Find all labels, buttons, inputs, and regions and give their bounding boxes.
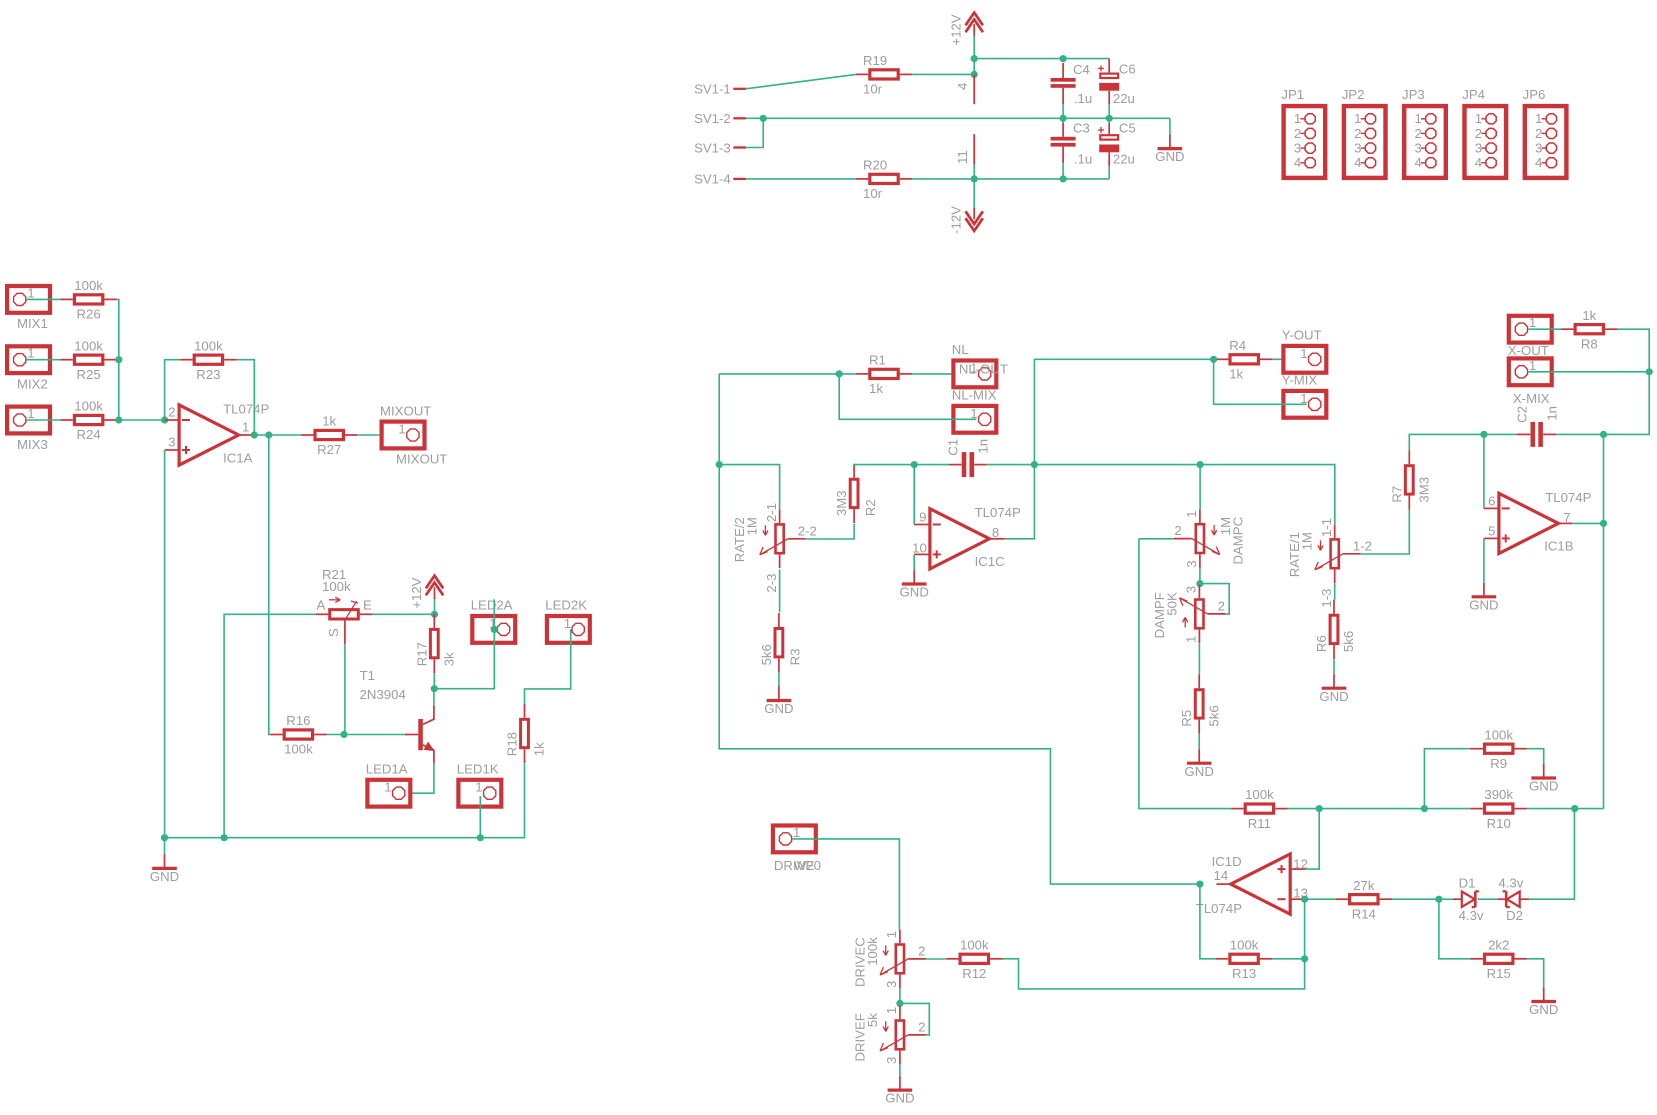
svg-text:LED1A: LED1A [366, 762, 408, 777]
svg-text:1: 1 [1184, 636, 1199, 643]
wire R11 row [1288, 808, 1471, 810]
wire top cap row [974, 58, 1109, 60]
svg-text:R9: R9 [1490, 756, 1507, 771]
svg-text:JP1: JP1 [1281, 87, 1304, 102]
svg-text:GND: GND [150, 869, 179, 884]
svg-text:1M: 1M [745, 517, 760, 535]
svg-text:3: 3 [1294, 141, 1301, 156]
wire R20 to -12V node [912, 178, 974, 180]
junction base/R21 wiper [340, 731, 347, 738]
svg-text:1-3: 1-3 [1319, 589, 1334, 608]
svg-text:2: 2 [1414, 126, 1421, 141]
svg-text:4: 4 [1414, 155, 1421, 170]
resistor R13 100k [1216, 937, 1272, 981]
connector MIX2 [7, 346, 50, 392]
resistor R1 1k [856, 353, 912, 397]
svg-text:JP6: JP6 [1523, 87, 1546, 102]
svg-text:GND: GND [900, 585, 929, 600]
wire output row [254, 434, 301, 436]
wire DRIVEF rheostat loop [900, 1003, 929, 1035]
ground GND (LED section) [150, 838, 179, 884]
wire C4 bottom [1062, 104, 1064, 118]
connector X-MIX [1508, 343, 1552, 406]
trimpot RATE/2 1M [732, 503, 817, 593]
svg-text:LED1K: LED1K [457, 762, 499, 777]
junction collector/LED2A [431, 685, 438, 692]
resistor R20 10r [856, 158, 912, 202]
wire R21-E to +12V node [372, 613, 434, 615]
svg-text:3M3: 3M3 [1417, 477, 1432, 503]
svg-text:C4: C4 [1073, 62, 1090, 77]
connector LED1A [366, 762, 411, 807]
svg-text:4: 4 [1294, 155, 1301, 170]
wire DAMPC wiper to R11 row [1139, 539, 1231, 809]
junction pin12 branch [1316, 805, 1323, 812]
junction DRIVEC/DRIVEF [896, 1000, 903, 1007]
ground GND (power) [1155, 135, 1184, 165]
resistor R11 100k [1231, 787, 1287, 831]
pin header JP4 [1462, 87, 1506, 178]
wire left bus [719, 374, 1200, 884]
svg-text:3: 3 [1184, 586, 1199, 593]
wire R2 top to C1 row [854, 463, 914, 466]
wire feedback to R12 [1003, 899, 1305, 989]
svg-text:2-2: 2-2 [798, 523, 817, 538]
junction C4/C3 [1060, 115, 1067, 122]
svg-text:2-1: 2-1 [764, 503, 779, 522]
svg-text:IC1C: IC1C [975, 554, 1006, 569]
wire to T1 base [344, 734, 405, 736]
svg-text:1: 1 [27, 406, 34, 421]
svg-text:SV1-4: SV1-4 [694, 172, 731, 187]
svg-text:1-1: 1-1 [1319, 518, 1334, 537]
svg-text:4: 4 [955, 83, 970, 90]
capacitor C3 .1u [1051, 120, 1093, 166]
capacitor C4 .1u [1051, 62, 1093, 106]
wire R8 down to C2 row [1604, 329, 1650, 434]
svg-text:NL-OUT: NL-OUT [959, 361, 1008, 376]
pin header JP6 [1523, 87, 1567, 178]
svg-text:-12V: -12V [949, 206, 964, 234]
junction R1/NL-MIX [836, 370, 843, 377]
svg-text:1k: 1k [1229, 367, 1243, 382]
wire to RATE/2 top [719, 465, 779, 511]
svg-text:100k: 100k [1230, 937, 1259, 952]
wire D2 to R10 junction [1529, 809, 1574, 900]
wire output to R16 [269, 435, 270, 735]
resistor R14 27k [1336, 878, 1392, 922]
svg-text:3: 3 [884, 1057, 899, 1064]
svg-text:1-2: 1-2 [1353, 538, 1372, 553]
svg-text:100k: 100k [74, 338, 103, 353]
svg-text:R7: R7 [1389, 486, 1404, 503]
svg-text:GND: GND [1469, 597, 1498, 612]
resistor R25 100k [60, 338, 116, 382]
wire RATE/1 wiper to R7 [1361, 510, 1410, 554]
junction +12V/R17 [431, 611, 438, 618]
svg-text:R4: R4 [1229, 338, 1246, 353]
svg-text:5k6: 5k6 [759, 644, 774, 665]
svg-text:5k6: 5k6 [1341, 631, 1356, 652]
wire R13 to node [1272, 958, 1304, 960]
junction DAMPC/DAMPF [1196, 580, 1203, 587]
junction X-MIX/R8 [1646, 368, 1653, 375]
resistor R15 2k2 [1471, 937, 1527, 981]
junction C2/trunk [1600, 431, 1607, 438]
svg-text:100k: 100k [865, 937, 880, 966]
svg-text:4: 4 [1535, 155, 1542, 170]
svg-text:10r: 10r [863, 82, 883, 97]
svg-text:22u: 22u [1113, 151, 1135, 166]
capacitor C5 22u (electrolytic) [1098, 120, 1136, 166]
wire to R15 [1439, 899, 1471, 959]
svg-text:Y-OUT: Y-OUT [1282, 328, 1322, 343]
svg-text:4.3v: 4.3v [1498, 876, 1523, 891]
pin header JP2 [1342, 87, 1386, 178]
svg-text:SV1-1: SV1-1 [694, 82, 731, 97]
resistor R7 3M3 [1389, 450, 1431, 509]
op-amp IC1B (TL074P) [1484, 490, 1592, 554]
svg-text:2: 2 [1218, 598, 1225, 613]
junction bus/R24 [115, 416, 122, 423]
svg-text:MIXOUT: MIXOUT [380, 403, 431, 418]
wire ground bus [165, 763, 525, 838]
svg-text:1: 1 [27, 346, 34, 361]
trimpot DAMPF 50K [1152, 585, 1226, 643]
trimpot DRIVEF 5k [852, 1006, 926, 1064]
junction C4 top [1060, 55, 1067, 62]
svg-text:8: 8 [992, 525, 999, 540]
wire bus to R1 [719, 373, 856, 375]
connector pin SV1-2 [694, 111, 746, 126]
wire DAMPC wiper [1139, 538, 1174, 540]
wire to GND [1169, 118, 1171, 134]
svg-text:2: 2 [1354, 126, 1361, 141]
wire X-MIX to trunk [1528, 371, 1649, 373]
svg-text:GND: GND [1529, 779, 1558, 794]
svg-text:1k: 1k [532, 742, 547, 756]
svg-text:4: 4 [1475, 155, 1482, 170]
pin header JP3 [1402, 87, 1446, 178]
wire C6 bottom [1108, 104, 1110, 118]
svg-text:5: 5 [1488, 524, 1495, 539]
power symbol +12V (top) [949, 13, 983, 46]
svg-text:4: 4 [1354, 155, 1361, 170]
svg-text:R5: R5 [1179, 710, 1194, 727]
wire C3 bottom [1062, 163, 1064, 179]
ground GND (R3) [764, 672, 793, 716]
ground GND (IC1C) [900, 570, 929, 600]
svg-text:1: 1 [564, 616, 571, 631]
capacitor C1 1n [946, 439, 991, 477]
svg-text:NL-MIX: NL-MIX [952, 388, 997, 403]
wire R25 out [117, 359, 119, 361]
wire net11 to -12V row [973, 164, 975, 179]
junction +12V/top cap row [971, 55, 978, 62]
svg-text:100k: 100k [74, 278, 103, 293]
svg-text:C3: C3 [1073, 120, 1090, 135]
ground GND (IC1B) [1469, 583, 1498, 613]
wire R17 to collector node [433, 673, 435, 689]
diode D1 4.3v (zener) [1453, 876, 1484, 924]
svg-text:6: 6 [1488, 493, 1495, 508]
wire C1 left [914, 464, 949, 466]
svg-text:1: 1 [27, 285, 34, 300]
junction ground bus R21 [221, 834, 228, 841]
svg-text:390k: 390k [1484, 787, 1513, 802]
svg-text:TL074P: TL074P [1545, 490, 1591, 505]
wire to NL-MIX [839, 374, 976, 419]
svg-text:JP3: JP3 [1402, 87, 1425, 102]
wire DRIVEC to DRIVEF [899, 988, 901, 1003]
svg-text:TL074P: TL074P [223, 401, 269, 416]
wire LED2K to R18 [525, 629, 571, 705]
svg-text:IC1B: IC1B [1544, 539, 1574, 554]
wire to Y-MIX [1214, 359, 1307, 404]
svg-text:NL: NL [952, 342, 969, 357]
wire R14 to diodes [1392, 898, 1439, 900]
wire summing bus [117, 299, 165, 420]
svg-text:JP4: JP4 [1462, 87, 1485, 102]
svg-text:GND: GND [1529, 1002, 1558, 1017]
wire emitter to LED1A [405, 764, 434, 794]
junction C1/IC1C inverting [911, 461, 918, 468]
svg-text:100k: 100k [960, 937, 989, 952]
svg-text:GND: GND [1185, 764, 1214, 779]
svg-text:1: 1 [475, 780, 482, 795]
net 4 (IC power pin stub) [955, 74, 974, 104]
wire non-inverting to gnd [913, 554, 915, 570]
svg-text:1: 1 [1535, 111, 1542, 126]
connector MIX3 [7, 406, 50, 452]
resistor R3 5k6 [759, 613, 803, 672]
svg-text:5k: 5k [865, 1013, 880, 1027]
svg-text:R6: R6 [1314, 635, 1329, 652]
junction +12V/R19 [971, 71, 978, 78]
svg-text:2N3904: 2N3904 [360, 687, 406, 702]
wire C2 right [1556, 433, 1604, 435]
op-amp IC1D (TL074P, mirrored) [1196, 854, 1308, 916]
svg-text:4.3v: 4.3v [1459, 908, 1484, 923]
svg-text:100k: 100k [322, 579, 351, 594]
svg-text:1n: 1n [1545, 406, 1560, 421]
connector DRIVE [773, 825, 821, 873]
junction DAMPC branch [1197, 461, 1204, 468]
wire DAMPF rheostat loop [1200, 584, 1229, 615]
wire R10 to trunk [1527, 808, 1604, 810]
svg-text:R11: R11 [1248, 816, 1271, 831]
wire DRIVEF to gnd [899, 1064, 901, 1076]
svg-text:100k: 100k [1484, 727, 1513, 742]
wire output to R13 [1200, 884, 1216, 959]
svg-text:R1: R1 [869, 353, 886, 368]
svg-text:1: 1 [1529, 358, 1536, 373]
svg-text:R19: R19 [863, 53, 887, 68]
wire MIX1 to resistor [27, 298, 61, 300]
svg-text:R10: R10 [1487, 816, 1511, 831]
svg-text:1: 1 [793, 825, 800, 840]
resistor R9 100k [1471, 727, 1527, 771]
wire R1 to NL-OUT [912, 373, 976, 375]
svg-text:IC1A: IC1A [223, 450, 253, 465]
svg-text:1: 1 [1529, 315, 1536, 330]
svg-text:22u: 22u [1113, 91, 1135, 106]
svg-text:50K: 50K [1164, 592, 1179, 616]
resistor R19 10r [856, 53, 912, 97]
svg-text:A: A [317, 597, 326, 612]
svg-text:3: 3 [884, 981, 899, 988]
wire R7 top to C2 row [1409, 434, 1484, 450]
svg-text:1k: 1k [322, 414, 336, 429]
resistor R16 100k [270, 713, 326, 757]
wire DAMPF to R5 [1198, 643, 1200, 674]
junction output branch [265, 431, 272, 438]
wire R11 row to pin 12 [1305, 809, 1319, 870]
svg-text:R13: R13 [1232, 966, 1256, 981]
wire +12V to node [434, 599, 436, 614]
svg-text:D2: D2 [1506, 908, 1523, 923]
resistor R4 1k [1216, 338, 1272, 382]
resistor R12 100k [946, 937, 1002, 981]
svg-text:R2: R2 [863, 499, 878, 516]
svg-text:IC1D: IC1D [1212, 854, 1242, 869]
wire D1 to D2 [1478, 898, 1498, 900]
wire R21 wiper down [344, 644, 346, 734]
junction left bus/RATE2 row [716, 461, 723, 468]
wire C1 row to RATE/1 [1034, 465, 1334, 525]
wire SV1-1 to R19 [746, 74, 856, 88]
connector pin SV1-4 [694, 172, 746, 187]
wire trunk down [1603, 434, 1605, 808]
svg-text:MIXOUT: MIXOUT [396, 451, 447, 466]
resistor R2 3M3 [834, 464, 878, 523]
svg-text:2-3: 2-3 [764, 574, 779, 593]
wire +12V vertical [973, 36, 975, 74]
connector Y-MIX [1282, 373, 1327, 418]
svg-text:C2: C2 [1514, 406, 1529, 423]
svg-text:MIX3: MIX3 [17, 437, 48, 452]
svg-text:GND: GND [885, 1091, 914, 1106]
wire GND row (SV1-2) [746, 117, 1170, 119]
svg-text:1: 1 [1300, 346, 1307, 361]
junction R13/feedback [1301, 955, 1308, 962]
svg-text:TL074P: TL074P [975, 505, 1021, 520]
wire R23 right to output [237, 360, 255, 435]
wire to -12V symbol [973, 179, 975, 208]
connector LED2A [471, 598, 516, 643]
wire non-inverting to ground bus [164, 450, 166, 838]
pin header JP1 [1281, 87, 1325, 178]
junction pin13 [1301, 896, 1308, 903]
svg-text:7: 7 [1563, 510, 1570, 525]
svg-text:R23: R23 [196, 367, 220, 382]
junction IC1B output/trunk [1600, 520, 1607, 527]
svg-text:1k: 1k [869, 381, 883, 396]
wire R24 out [117, 419, 119, 421]
svg-text:SV1-3: SV1-3 [694, 140, 731, 155]
svg-text:+12V: +12V [409, 577, 424, 608]
wire R19 to +12V [912, 73, 974, 75]
svg-text:X-OUT: X-OUT [1508, 343, 1549, 358]
ground GND (DRIVEF) [885, 1076, 914, 1106]
svg-text:2: 2 [1475, 126, 1482, 141]
svg-text:3: 3 [1354, 141, 1361, 156]
wire LED2A down [434, 599, 494, 689]
wire MIX3 to resistor [27, 419, 61, 421]
wire R4 to Y-OUT [1272, 358, 1306, 360]
svg-text:C6: C6 [1119, 62, 1136, 77]
wire X-OUT to R8 [1528, 328, 1561, 330]
power symbol +12V (LED section) [409, 576, 443, 609]
connector Y-OUT [1282, 328, 1327, 373]
wire IC1C output trunk [1005, 359, 1214, 539]
svg-text:1M: 1M [1300, 532, 1315, 550]
trimpot R21 100k [316, 567, 373, 644]
junction C6/C5 [1106, 115, 1113, 122]
svg-text:3: 3 [168, 435, 175, 450]
resistor R26 100k [60, 278, 116, 322]
ground GND (R15) [1529, 988, 1558, 1018]
svg-text:2: 2 [168, 404, 175, 419]
wire to D1 [1439, 898, 1453, 900]
wire R9 to gnd [1527, 749, 1544, 764]
junction SV1-2/SV1-3 [760, 115, 767, 122]
wire R16 to base node [327, 734, 344, 736]
svg-text:1: 1 [384, 780, 391, 795]
svg-text:X-MIX: X-MIX [1513, 391, 1550, 406]
svg-text:R26: R26 [76, 307, 100, 322]
ground GND (R5) [1185, 734, 1214, 779]
svg-text:1: 1 [1414, 111, 1421, 126]
connector MIXOUT [380, 403, 447, 466]
svg-text:5k6: 5k6 [1206, 705, 1221, 726]
svg-text:1: 1 [884, 931, 899, 938]
net 11 (IC power pin stub) [955, 134, 974, 164]
wire LED1K down [479, 796, 481, 838]
junction R10/diodes [1571, 805, 1578, 812]
svg-text:2: 2 [918, 1019, 925, 1034]
resistor R5 5k6 [1179, 674, 1221, 733]
wire SV1-4 to R20 [746, 178, 856, 180]
svg-text:1: 1 [1354, 111, 1361, 126]
op-amp IC1C (TL074P) [912, 505, 1021, 569]
wire pin13 to R14 [1305, 898, 1336, 900]
junction C2/IC1B [1480, 431, 1487, 438]
wire DAMPC to DAMPF node [1199, 568, 1201, 584]
svg-text:TL074P: TL074P [1196, 901, 1242, 916]
svg-text:2: 2 [1535, 126, 1542, 141]
connector NL-MIX [952, 388, 997, 433]
junction R4/Y-MIX [1210, 356, 1217, 363]
wire C1 right [987, 464, 1035, 466]
svg-text:100k: 100k [194, 338, 223, 353]
svg-text:R14: R14 [1352, 906, 1376, 921]
svg-text:+12V: +12V [949, 14, 964, 45]
resistor R27 1k [301, 414, 357, 458]
svg-text:3: 3 [1414, 141, 1421, 156]
power symbol -12V [949, 206, 983, 234]
svg-text:GND: GND [764, 701, 793, 716]
svg-text:.1u: .1u [1074, 91, 1092, 106]
junction output/R23 [251, 431, 258, 438]
resistor R18 1k [505, 704, 547, 763]
resistor R17 3k [414, 614, 456, 673]
svg-text:R27: R27 [317, 442, 341, 457]
op-amp IC1A (TL074P) [165, 401, 270, 465]
svg-text:R18: R18 [505, 732, 520, 756]
junction ground bus left [161, 834, 168, 841]
resistor R8 1k [1561, 308, 1617, 352]
